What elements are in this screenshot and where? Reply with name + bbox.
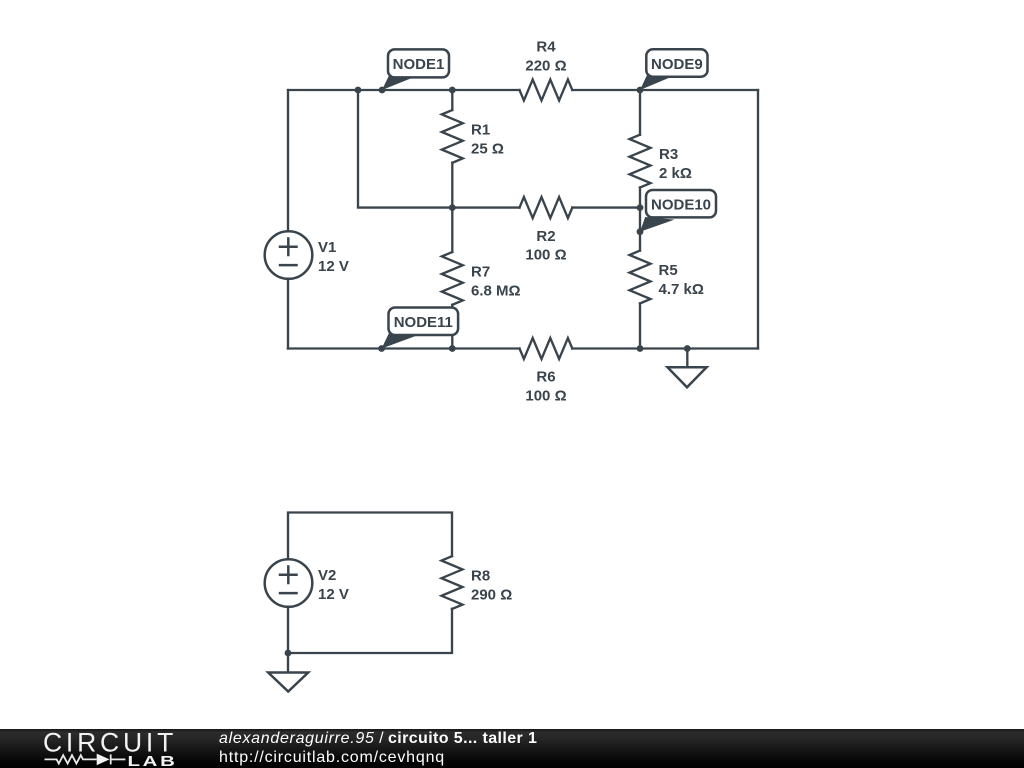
svg-text:100 Ω: 100 Ω <box>525 387 566 404</box>
footer bar <box>0 729 1024 768</box>
junction dot NODE11 attach <box>378 345 385 352</box>
svg-text:R3: R3 <box>659 146 678 163</box>
junction dot NODE1 attach <box>379 87 386 94</box>
ground (top circuit) <box>668 349 707 388</box>
wire middle branch from NODE1 down and across to NODE10 <box>358 90 520 208</box>
junction dot V2 ground <box>285 650 292 657</box>
junction dot R1 bottom / R7 top <box>449 204 456 211</box>
resistor R8 <box>442 556 463 609</box>
voltage source V2 <box>265 559 313 607</box>
junction dot NODE1 branch <box>355 87 362 94</box>
svg-text:R4: R4 <box>536 39 556 56</box>
svg-text:100 Ω: 100 Ω <box>525 247 566 264</box>
svg-text:6.8 MΩ: 6.8 MΩ <box>471 282 521 299</box>
wire R2 right lead to NODE10 <box>572 206 640 208</box>
resistor R7 <box>442 208 463 349</box>
svg-text:4.7 kΩ: 4.7 kΩ <box>659 281 704 298</box>
svg-text:220 Ω: 220 Ω <box>525 57 566 74</box>
resistor R3 <box>630 90 651 232</box>
junction dot ground top <box>684 345 691 352</box>
logo resistor-diode glyph <box>45 754 126 764</box>
junction dot NODE10 attach (R3/R5) <box>637 228 644 235</box>
resistor R5 <box>630 232 651 349</box>
svg-text:NODE11: NODE11 <box>394 314 453 331</box>
wire top rail left of R4 <box>288 89 520 91</box>
ground (bottom circuit) <box>268 653 308 692</box>
svg-text:R5: R5 <box>659 262 678 279</box>
node NODE1 <box>382 49 449 90</box>
junction dot R1 top <box>449 87 456 94</box>
wire right rail <box>757 90 759 349</box>
wire bottom rail right of R6 <box>572 347 758 349</box>
svg-text:LAB: LAB <box>128 753 178 768</box>
wire bottom rail left of R6 <box>288 347 520 349</box>
resistor R1 <box>442 90 463 208</box>
svg-text:NODE1: NODE1 <box>393 56 445 73</box>
resistor R4 <box>520 80 573 101</box>
svg-text:R8: R8 <box>471 567 490 584</box>
wire V2 bottom to ground node to R8 bottom <box>288 607 452 653</box>
wire top rail right of R4 <box>572 89 758 91</box>
junction dot NODE10 wire <box>637 204 644 211</box>
node NODE10 <box>640 190 716 232</box>
svg-text:R6: R6 <box>536 369 555 386</box>
junction dot R7 bottom <box>449 345 456 352</box>
wire left rail lower (V1 bottom lead) <box>287 279 289 349</box>
svg-text:290 Ω: 290 Ω <box>471 586 512 603</box>
resistor R6 <box>520 338 573 359</box>
svg-text:NODE9: NODE9 <box>651 56 703 73</box>
svg-text:V1: V1 <box>318 239 336 256</box>
svg-text:2 kΩ: 2 kΩ <box>659 165 692 182</box>
junction dot NODE9 <box>637 87 644 94</box>
svg-text:25 Ω: 25 Ω <box>471 140 504 157</box>
svg-text:R7: R7 <box>471 263 490 280</box>
svg-text:V2: V2 <box>318 567 336 584</box>
wire left rail upper (V1 top lead) <box>287 90 289 231</box>
svg-text:R2: R2 <box>536 228 555 245</box>
wire V2 loop (bottom circuit) <box>288 513 452 560</box>
voltage source V1 <box>265 231 313 279</box>
junction dot R5 bottom <box>637 345 644 352</box>
resistor R2 <box>520 197 573 218</box>
svg-text:12 V: 12 V <box>318 586 349 603</box>
svg-text:R1: R1 <box>471 121 490 138</box>
node NODE11 <box>382 308 459 349</box>
svg-text:12 V: 12 V <box>318 258 349 275</box>
node NODE9 <box>640 49 708 90</box>
svg-text:NODE10: NODE10 <box>651 197 711 214</box>
